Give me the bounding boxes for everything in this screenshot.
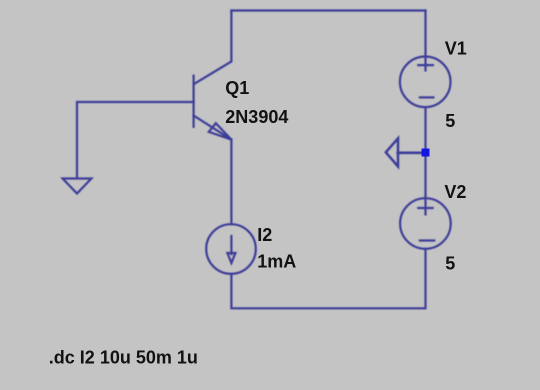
svg-text:5: 5	[445, 111, 455, 131]
svg-text:I2: I2	[257, 225, 272, 245]
svg-text:V1: V1	[445, 38, 467, 58]
svg-text:V2: V2	[444, 182, 466, 202]
svg-text:5: 5	[445, 253, 455, 273]
svg-text:Q1: Q1	[225, 78, 249, 98]
svg-text:.dc I2 10u 50m 1u: .dc I2 10u 50m 1u	[49, 347, 198, 367]
svg-text:1mA: 1mA	[257, 252, 296, 272]
svg-text:2N3904: 2N3904	[225, 107, 288, 127]
